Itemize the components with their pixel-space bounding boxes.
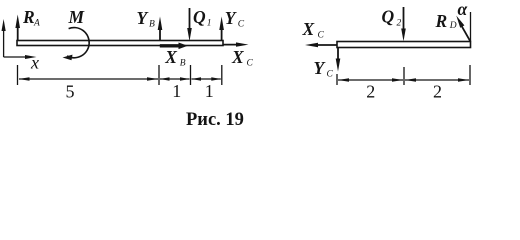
svg-text:1: 1 — [207, 18, 212, 28]
svg-text:1: 1 — [205, 81, 214, 101]
force Y_C arrow (beam 2) — [336, 48, 341, 72]
svg-text:2: 2 — [433, 82, 442, 102]
svg-text:B: B — [180, 58, 186, 68]
svg-text:x: x — [30, 53, 39, 73]
label M — [68, 7, 86, 27]
label X_B — [164, 47, 186, 68]
label Y_C (beam 2) — [314, 58, 334, 79]
svg-text:C: C — [318, 30, 325, 40]
svg-text:M: M — [68, 7, 86, 27]
x-axis arrow — [4, 55, 37, 59]
dimension tick D — [469, 65, 471, 85]
force R_D inclined arrow — [456, 16, 470, 42]
svg-text:C: C — [327, 69, 334, 79]
dimension tick B — [158, 65, 160, 85]
dimension label 2 (left) — [366, 82, 375, 102]
dimension line 1 (right) — [192, 77, 221, 81]
label Q_2 — [382, 7, 402, 29]
svg-text:R: R — [435, 11, 448, 31]
label X_C (beam 2) — [302, 19, 325, 40]
beam 2 — [337, 42, 471, 48]
dimension label 1 (right) — [205, 81, 214, 101]
force X_B arrow — [160, 43, 188, 50]
svg-text:α: α — [458, 0, 468, 19]
caption Рис. 19 — [186, 110, 244, 130]
force Q_2 arrow — [401, 7, 406, 41]
label alpha — [458, 0, 468, 19]
svg-text:X: X — [302, 19, 316, 39]
force Y_C arrow (beam 1) — [219, 17, 224, 41]
svg-text:A: A — [33, 19, 40, 29]
moment M arc — [63, 28, 90, 61]
vertical reference line at D — [470, 12, 472, 42]
beam 1 — [17, 41, 223, 46]
dimension line 5 — [19, 77, 159, 81]
svg-text:5: 5 — [66, 82, 75, 102]
svg-text:Q: Q — [382, 7, 395, 27]
svg-text:C: C — [238, 19, 245, 29]
dimension label 2 (right) — [433, 82, 442, 102]
x-axis label x — [30, 53, 39, 73]
svg-text:B: B — [149, 19, 155, 29]
label R_A — [22, 7, 40, 29]
dimension label 1 (left) — [172, 81, 181, 101]
label R_D — [435, 11, 457, 31]
dimension tick Q1 — [190, 65, 192, 85]
svg-text:X: X — [231, 47, 245, 67]
label X_C (beam 1) — [231, 47, 254, 68]
dimension line 2 (left) — [338, 78, 403, 82]
dimension line 2 (right) — [405, 78, 469, 82]
svg-text:Рис. 19: Рис. 19 — [186, 110, 244, 130]
force R_A arrow — [15, 15, 20, 41]
label Y_C (beam 1) — [225, 8, 245, 29]
y-axis arrow — [2, 19, 6, 57]
svg-text:1: 1 — [172, 81, 181, 101]
dimension tick Q2 — [403, 67, 405, 85]
dimension tick C — [221, 65, 223, 85]
dimension tick A — [17, 65, 19, 85]
svg-text:R: R — [22, 7, 35, 27]
force Y_B arrow — [158, 17, 163, 41]
svg-text:2: 2 — [397, 18, 402, 28]
svg-text:2: 2 — [366, 82, 375, 102]
svg-text:Q: Q — [193, 7, 206, 27]
svg-text:C: C — [247, 58, 254, 68]
label Y_B — [137, 8, 156, 29]
force X_C arrow (beam 2) — [305, 43, 337, 47]
svg-text:D: D — [449, 21, 457, 31]
dimension tick C (beam 2) — [336, 74, 338, 85]
label Q_1 — [193, 7, 212, 28]
dimension label 5 — [66, 82, 75, 102]
force Q_1 arrow — [187, 8, 192, 41]
dimension line 1 (left) — [160, 77, 190, 81]
force X_C arrow (beam 1) — [223, 42, 249, 46]
svg-text:X: X — [164, 47, 178, 67]
